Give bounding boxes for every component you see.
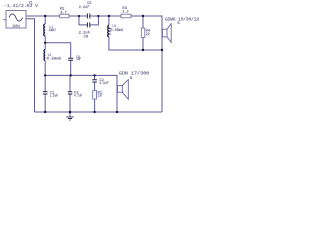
capacitor C3 plates	[68, 92, 73, 94]
svg-text:1.5uF: 1.5uF	[50, 95, 59, 99]
svg-text:10: 10	[98, 95, 103, 99]
svg-text:4.7uF: 4.7uF	[74, 95, 83, 99]
svg-text:22: 22	[146, 33, 151, 37]
wire R3 right to tweeter corner and down	[131, 16, 162, 112]
capacitor C4 leads	[70, 60, 72, 75]
wire C6 branch	[79, 16, 98, 25]
wire L1 bottom to junction	[44, 36, 46, 50]
svg-text:1mH: 1mH	[49, 29, 57, 33]
junction node R4 bottom	[142, 49, 144, 51]
junction node C2 top on mid rail	[93, 74, 95, 76]
junction node at L3 top	[108, 15, 110, 17]
ground	[66, 117, 74, 120]
svg-text:GDN 17/300: GDN 17/300	[119, 72, 150, 77]
mid rail	[45, 75, 117, 112]
junction node C6 branch left	[78, 15, 80, 17]
svg-text:1kHz: 1kHz	[12, 24, 20, 29]
junction node tweeter return	[161, 49, 163, 51]
capacitor C5 plates	[87, 14, 89, 19]
wire R2 to C5 corner	[69, 15, 87, 17]
junction node L1-L2 / C4 branch	[44, 42, 46, 44]
R4 leads	[142, 16, 144, 50]
junction node ground connection	[69, 111, 72, 114]
C3 branch	[69, 75, 71, 112]
labels	[4, 1, 200, 98]
wire C5 right to R3	[90, 15, 121, 17]
ground stub	[69, 112, 71, 117]
junction node R1 bottom on ground rail	[93, 111, 95, 113]
source left stub	[3, 19, 6, 21]
wire L1 top	[44, 16, 46, 24]
wire top from source	[26, 15, 60, 17]
inductor L1	[44, 24, 45, 36]
junction node woofer bottom on ground rail	[116, 111, 118, 113]
junction node at L1 top	[44, 15, 46, 17]
svg-text:0.58mH: 0.58mH	[47, 58, 62, 62]
svg-text:GDWK 10/30/19: GDWK 10/30/19	[165, 18, 200, 23]
capacitor C4 plates	[68, 58, 73, 60]
sine wave	[9, 14, 22, 21]
inductor L3 top wire	[108, 16, 110, 25]
svg-text:-1.41/2.83 V: -1.41/2.83 V	[4, 4, 39, 9]
svg-text:1uF: 1uF	[76, 57, 81, 61]
resistor R2 body	[60, 14, 69, 18]
woofer speaker GDN	[118, 80, 129, 100]
junction node at R4 top	[142, 15, 144, 17]
svg-text:2.2: 2.2	[122, 11, 129, 15]
capacitor C2 plates	[92, 80, 97, 82]
junction node L2 bottom on mid rail	[44, 74, 46, 76]
C1 branch	[44, 75, 46, 112]
junction node C6 branch right	[97, 15, 99, 17]
svg-text:2.2uF: 2.2uF	[79, 6, 90, 10]
capacitor C6 plates	[87, 22, 89, 27]
wire L3 bottom	[109, 37, 162, 50]
inductor L2	[44, 50, 45, 61]
resistor R4 body	[141, 28, 145, 37]
bottom rail	[35, 111, 163, 113]
source V1 box	[6, 11, 26, 29]
junction node C1 bottom on ground rail	[44, 111, 46, 113]
branch to C4	[45, 43, 70, 58]
junction node C4/C3 on mid rail	[70, 74, 72, 76]
svg-text:4.7: 4.7	[60, 11, 67, 15]
C2/R1 branch	[94, 75, 96, 112]
svg-text:C6: C6	[84, 35, 89, 39]
wire source bottom return	[26, 19, 35, 112]
svg-text:0.68mH: 0.68mH	[110, 29, 123, 33]
inductor L3	[108, 25, 109, 37]
resistor R1 body	[93, 91, 97, 100]
svg-text:3.3uF: 3.3uF	[99, 82, 109, 86]
capacitor C1 plates	[43, 92, 48, 94]
resistor R3 body	[121, 14, 131, 18]
tweeter speaker GDWK	[162, 24, 171, 43]
wire L2 bottom to rail	[44, 61, 46, 76]
